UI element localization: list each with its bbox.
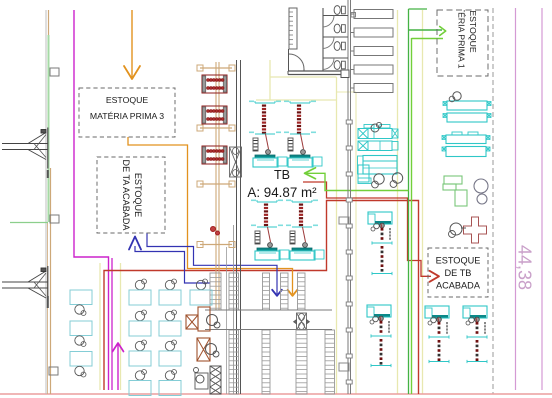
svg-text:ESTOQUE: ESTOQUE <box>133 173 143 217</box>
svg-text:TB: TB <box>274 168 290 182</box>
svg-text:ACABADA: ACABADA <box>436 281 481 291</box>
svg-text:44,38: 44,38 <box>515 245 535 290</box>
svg-text:ESTOQUE: ESTOQUE <box>436 256 481 266</box>
svg-text:MATÉRIA PRIMA 3: MATÉRIA PRIMA 3 <box>90 111 164 121</box>
svg-text:MATÉRIA PRIMA 1: MATÉRIA PRIMA 1 <box>457 0 467 69</box>
svg-text:DE TA ACABADA: DE TA ACABADA <box>121 160 131 232</box>
svg-text:ESTOQUE: ESTOQUE <box>106 95 149 105</box>
svg-text:DE TB: DE TB <box>445 268 472 278</box>
svg-text:ESTOQUE: ESTOQUE <box>468 10 478 53</box>
svg-text:A: 94.87 m²: A: 94.87 m² <box>247 185 317 200</box>
